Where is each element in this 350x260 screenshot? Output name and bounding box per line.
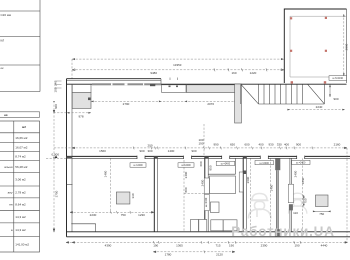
treads [259, 84, 303, 104]
dark wall stub [150, 84, 155, 86]
red column marker mid-right [325, 50, 327, 52]
wall right of bathroom [239, 158, 246, 232]
left diagonal [241, 84, 259, 104]
bedroom right: desk gray [293, 158, 330, 232]
bottom-left area table: header band [0, 112, 40, 118]
thin wall with door label + stub (right bedroom) [288, 158, 297, 232]
overall top dimension line 13353 [72, 58, 284, 67]
door jamb ticks on middle wall [137, 156, 305, 159]
hallway closet white box [162, 85, 187, 93]
tick marks above closet [170, 78, 178, 81]
secondary bottom dimension line [153, 250, 235, 256]
left outer wall [67, 79, 73, 237]
red column marker top-right [325, 17, 327, 19]
kitchen counter gray box [72, 93, 91, 109]
room vertical dimension 2860 [343, 14, 349, 76]
stair side dimension 900 [329, 85, 339, 102]
corridor dimension 2790 [91, 101, 237, 106]
red column marker mid-left [290, 50, 292, 52]
door label boxes along middle wall [130, 160, 310, 167]
window band along top (glazing) [92, 83, 161, 85]
hallway closet gray box [187, 85, 236, 93]
kitchen counter white box [72, 85, 91, 93]
wall junction marks [154, 156, 158, 159]
vertical gray wall bar left of stairs [235, 84, 242, 123]
window sill mark left wall [67, 183, 73, 185]
red column marker top-left [290, 17, 292, 19]
wall between living room and hall [154, 158, 157, 232]
watermark worker icon 2 [288, 193, 306, 214]
wall of bathroom left [204, 158, 209, 232]
living room table gray [103, 158, 135, 212]
top-left legend table (cut off at left edge) [0, 0, 40, 92]
red column marker bottom-right [324, 81, 326, 83]
hall wardrobe boxes [191, 220, 207, 232]
right diagonal [308, 84, 325, 103]
wall with dark stub (bedroom divider) [275, 158, 281, 237]
top-left outer wall (double line) [67, 79, 347, 85]
watermark worker icon 1 [249, 194, 272, 219]
bench along bottom wall (living room) [71, 224, 95, 232]
door height label box [329, 76, 347, 81]
hall vertical dashed dim [184, 124, 205, 232]
small exterior wall dims 240/100 [54, 81, 62, 93]
bottom-left area table [0, 121, 40, 252]
living room dims 2230/750/1230 [70, 211, 154, 217]
bathroom shower enclosure [208, 158, 235, 193]
level mark ±0.000 [46, 152, 67, 158]
red column marker bottom-left [291, 81, 293, 83]
dimension 978 under counter [54, 112, 92, 118]
bathroom vanity boxes [211, 220, 223, 231]
small dark mark on counter [88, 98, 91, 101]
left vertical dimension line 3750 [53, 101, 59, 232]
middle bedroom dims [246, 158, 274, 232]
toilet [211, 202, 220, 213]
right vertical dashed dimension [346, 148, 348, 242]
left wall / middle wall junction [67, 156, 73, 158]
stair dimension 2240 [287, 105, 345, 111]
top dimension line 9480 / 160 / 1220 [72, 59, 284, 79]
